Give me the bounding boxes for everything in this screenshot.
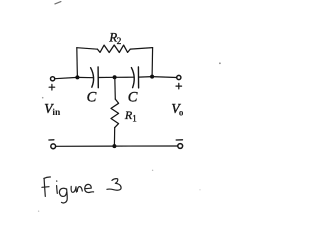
terminal Vin+ <box>51 77 55 81</box>
terminal Vo- <box>178 144 183 149</box>
wire node B to C2 <box>115 76 134 78</box>
caption Figure 3 (handwritten) <box>42 177 121 203</box>
wire node B down to R1 <box>114 77 117 99</box>
svg-text:C: C <box>128 89 138 105</box>
label Vo <box>171 101 184 118</box>
svg-text:C: C <box>87 89 97 105</box>
terminal Vo+ <box>177 75 181 79</box>
wire top-left vertical (input node to R2 left) <box>76 48 79 78</box>
node D (junction R1 / bottom rail) <box>112 144 116 148</box>
wire top-right vertical (R2 right to output node) <box>151 48 154 77</box>
capacitor C1 <box>91 67 99 88</box>
wire top rail left of R2 <box>77 48 98 50</box>
label C (right capacitor) <box>128 89 138 105</box>
wire C1 to node B <box>98 76 114 78</box>
wire bottom rail left <box>56 145 115 147</box>
label R1 <box>124 108 137 124</box>
svg-text:o: o <box>179 108 184 118</box>
terminal Vin- <box>51 144 56 149</box>
stray pen mark top-left <box>55 2 61 4</box>
plus sign (output) <box>176 83 182 89</box>
node C (junction C2 / R2 / output) <box>150 75 154 79</box>
node A (junction input / R2 / C1) <box>75 75 79 79</box>
wire C2 to node C <box>139 76 152 79</box>
capacitor C2 <box>131 67 138 88</box>
resistor R1 <box>111 99 119 128</box>
svg-text:2: 2 <box>117 37 122 47</box>
label C (left capacitor) <box>87 89 97 105</box>
wire bottom rail right <box>114 145 177 147</box>
label R2 <box>108 29 121 47</box>
label Vin <box>44 101 61 118</box>
node B (junction C1 / C2 / R1) <box>113 75 117 79</box>
paper specks <box>38 62 221 212</box>
svg-text:1: 1 <box>132 113 137 123</box>
wire node A to C1 <box>77 76 93 78</box>
minus sign (input) <box>49 139 54 141</box>
plus sign (input) <box>49 84 55 90</box>
minus sign (output) <box>176 139 182 141</box>
wire top rail right of R2 <box>130 48 152 50</box>
resistor R2 <box>98 45 131 53</box>
wire input terminal to node A <box>55 77 78 78</box>
svg-text:in: in <box>52 108 61 118</box>
wire R1 to node D <box>113 128 115 147</box>
wire node C to output terminal <box>152 76 177 79</box>
